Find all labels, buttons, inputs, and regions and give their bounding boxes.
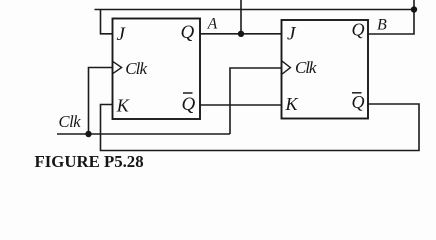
node A junction dot (238, 31, 244, 37)
wire: J1 input drop from top line (101, 10, 113, 34)
svg-text:J: J (117, 24, 127, 45)
svg-text:B: B (377, 16, 387, 33)
svg-text:FIGURE P5.28: FIGURE P5.28 (35, 152, 144, 171)
wire: external Clk line (57, 133, 230, 135)
wire: Clk branch up to U1 clock input (89, 68, 113, 135)
wire: Q2 output to node B riser with stub (368, 0, 414, 34)
wire: node A riser to top line with stub (240, 0, 242, 34)
node B junction dot (411, 6, 417, 12)
wire: top feedback line from node B to J1 (95, 9, 415, 11)
svg-text:Clk: Clk (125, 59, 147, 78)
wire: Q2-bar feedback down, along bottom, up to K1 input (101, 104, 420, 151)
svg-text:Q: Q (352, 92, 365, 112)
U1 clock edge triangle (113, 62, 121, 74)
U2 Q-bar overline (352, 92, 362, 94)
flip-flop U2 body (282, 20, 369, 119)
wire: Q1-bar output to K2 input (200, 104, 282, 106)
svg-text:J: J (287, 24, 297, 45)
svg-text:Clk: Clk (59, 112, 82, 131)
svg-text:A: A (207, 15, 218, 32)
U2 clock edge triangle (282, 61, 290, 74)
flip-flop U1 body (113, 19, 201, 120)
U1 Q-bar overline (183, 92, 193, 94)
svg-text:K: K (116, 96, 130, 116)
svg-text:Clk: Clk (295, 58, 317, 77)
svg-text:Q: Q (182, 94, 196, 115)
node Clk junction dot (85, 131, 91, 137)
wire: Q1 output to J2 (node A) (200, 33, 282, 35)
wire: Clk branch up to U2 clock input (230, 68, 282, 134)
svg-text:Q: Q (181, 22, 195, 43)
svg-text:Q: Q (352, 20, 365, 40)
svg-text:K: K (285, 94, 299, 114)
